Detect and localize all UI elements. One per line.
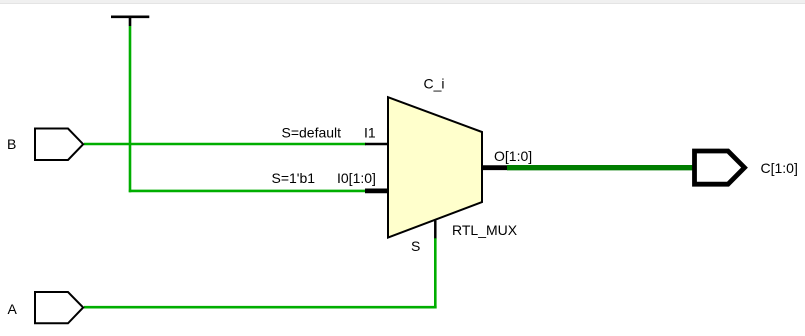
svg-text:A: A [8, 301, 18, 317]
input port A [35, 292, 83, 323]
wire vertical up to S pin [434, 238, 437, 309]
power symbol (constant 1 supply T) [111, 17, 149, 26]
bus wire O to port C [507, 165, 694, 170]
svg-text:S=default: S=default [282, 124, 342, 140]
svg-text:I0[1:0]: I0[1:0] [337, 170, 376, 186]
wire horizontal to I0 pin [129, 190, 366, 193]
svg-text:RTL_MUX: RTL_MUX [452, 222, 518, 238]
svg-text:B: B [7, 136, 16, 152]
svg-text:S=1'b1: S=1'b1 [272, 170, 316, 186]
svg-text:C[1:0]: C[1:0] [761, 160, 798, 176]
wire from port A horizontal [84, 306, 437, 309]
pin I1 stub [365, 143, 389, 146]
toolbar strip [0, 0, 805, 4]
pin I0[1:0] bus stub [365, 188, 389, 193]
pin O[1:0] bus stub [481, 165, 508, 170]
wire vertical from power symbol [129, 26, 132, 192]
svg-text:O[1:0]: O[1:0] [494, 148, 532, 164]
svg-text:C_i: C_i [424, 76, 445, 92]
wire from port B to I1 pin [84, 143, 366, 146]
pin S stub [434, 221, 437, 239]
mux U1 RTL_MUX body [388, 97, 482, 237]
svg-text:I1: I1 [364, 124, 376, 140]
svg-text:S: S [411, 238, 420, 254]
input port B [35, 129, 83, 161]
output port C[1:0] [695, 151, 745, 184]
